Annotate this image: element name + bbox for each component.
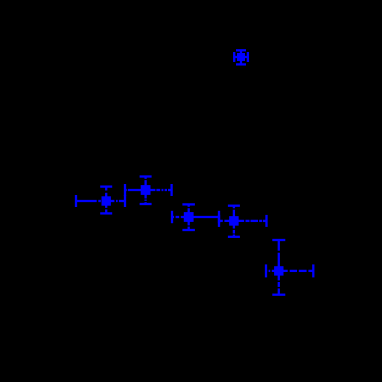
data point 4 square marker — [184, 212, 194, 222]
data point 4 y error bar with end caps — [182, 204, 195, 230]
data point 6 square marker — [274, 266, 283, 275]
data point 5 x error bar with end caps — [219, 215, 267, 227]
data point 3 square marker — [141, 185, 151, 195]
data point 2 x error bar with end caps — [76, 195, 125, 207]
data point 5 y error bar with end caps — [228, 206, 240, 237]
data point 2 y error bar with end caps — [100, 187, 112, 214]
data point 3 x error bar with end caps — [125, 184, 172, 196]
data point 5 square marker — [229, 216, 239, 226]
data point 6 y error bar with end caps — [272, 240, 285, 295]
data point 1 x error bar with end caps — [234, 52, 248, 62]
data point 2 square marker — [102, 196, 111, 205]
data point 1 y error bar with end caps — [236, 50, 246, 64]
data point 3 y error bar with end caps — [140, 177, 152, 205]
data point 6 x error bar with end caps — [266, 264, 313, 277]
data point 1 square marker — [237, 53, 245, 61]
data point 4 x error bar with end caps — [172, 211, 219, 223]
